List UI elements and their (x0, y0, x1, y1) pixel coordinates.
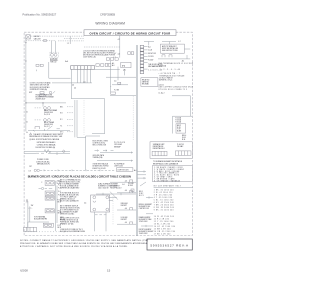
fuse on wire N (44, 40, 47, 42)
pin label row 4 (144, 56, 154, 58)
dots row bottom left (25, 231, 74, 233)
svg-text:RELOJ HORLOGE: RELOJ HORLOGE (93, 145, 107, 147)
wire element top link (96, 193, 136, 195)
wire dotted drop right of element (112, 196, 114, 225)
infinite switch SW1 (41, 181, 60, 186)
wire bake feed (26, 103, 66, 107)
svg-text:ATTENTION: L'APPAREIL DOIT ETR: ATTENTION: L'APPAREIL DOIT ETRE RELIE A … (20, 245, 128, 248)
svg-text:OVEN CIRCUIT / CIRCUITO DE HOR: OVEN CIRCUIT / CIRCUITO DE HORNO CIRCUIT… (90, 31, 171, 35)
receptacle row 3 (117, 208, 136, 210)
relay comp pair mid (118, 52, 134, 56)
pin label row 3 (144, 53, 156, 55)
svg-text:BURNER CIRCUIT / CIRCUITO DE P: BURNER CIRCUIT / CIRCUITO DE PLACAS DE C… (28, 175, 131, 179)
wire diagonal jog (110, 192, 118, 200)
svg-text:4-6: 4-6 (122, 184, 124, 186)
svg-text:12 Y .35 1000 240: 12 Y .35 1000 240 (154, 221, 174, 223)
svg-text:NOTES: CONNECT RANGE TO A PROP: NOTES: CONNECT RANGE TO A PROPERLY GROUN… (20, 239, 148, 242)
svg-text:7 BR .26 2600 240: 7 BR .26 2600 240 (154, 205, 174, 207)
svg-text:BK 1: BK 1 (60, 106, 63, 108)
note hidden bake element (36, 94, 55, 101)
wire paragraph column P4 (60, 217, 80, 225)
wire T junction L1 top (144, 42, 154, 46)
wire right bus (158, 55, 190, 59)
svg-text:DE INSTRUCCIONES (A): DE INSTRUCCIONES (A) (36, 146, 56, 149)
wire bus right of switches (56, 181, 58, 231)
receptacle pin box B (175, 151, 191, 156)
wire stub rows left of table (137, 170, 146, 197)
caption block right 1 (139, 196, 153, 210)
svg-text:TOR LUZ: TOR LUZ (50, 61, 56, 63)
wire pre-header row (29, 169, 115, 172)
svg-text:LIGHT SW 120V: LIGHT SW 120V (118, 170, 129, 172)
relay comps K1 K2 (105, 62, 114, 67)
wire element right links (109, 198, 117, 201)
svg-text:+ ( ) +: + ( ) + (28, 207, 32, 209)
svg-text:4-7: 4-7 (118, 39, 120, 41)
wire rail mid pair (75, 100, 77, 137)
node dot rail 2 (25, 60, 26, 61)
svg-text:6 GY .42 1500 240: 6 GY .42 1500 240 (154, 202, 174, 204)
svg-text:SEE INSTRUCTIONS: SEE INSTRUCTIONS (162, 50, 178, 52)
fuse comps row F1 F2 (96, 64, 104, 67)
infinite switch SW4 (45, 209, 54, 213)
svg-text:WIRING DIAGRAM: WIRING DIAGRAM (95, 22, 125, 26)
right list rows lower (182, 135, 186, 141)
svg-text:3 R .26 2500 240: 3 R .26 2500 240 (154, 195, 173, 197)
surface element E1 (91, 195, 110, 212)
svg-text:120V 60HZ ( A ): 120V 60HZ ( A ) (83, 56, 96, 59)
svg-text:4-6: 4-6 (125, 222, 127, 224)
svg-text:R 3: R 3 (60, 119, 62, 121)
infinite switch SW5 (43, 223, 53, 227)
svg-text:Y GY: Y GY (177, 129, 180, 131)
wide dark rows bottom (60, 229, 85, 233)
receptacle row 4 labels (121, 217, 128, 221)
svg-text:4-6: 4-6 (84, 202, 86, 204)
note door lock motor block (30, 82, 52, 91)
node diamond (62, 150, 65, 153)
svg-text:BK TO INFINITE SWITCH: BK TO INFINITE SWITCH (60, 205, 78, 207)
wire junction row (28, 129, 70, 132)
wire clock feed 2 (97, 160, 133, 162)
note anti-tip box (161, 44, 185, 53)
receptacle row 4 (117, 222, 136, 224)
rail tap marks (27, 111, 28, 135)
svg-text:1500W 240V: 1500W 240V (139, 233, 148, 235)
svg-text:BK W: BK W (177, 125, 181, 127)
wire clock frame (86, 136, 100, 170)
svg-text:USE COPPER CONDUCTORS ONLY: USE COPPER CONDUCTORS ONLY (159, 87, 194, 89)
svg-text:ELEMENTO DEL: ELEMENTO DEL (139, 206, 151, 208)
note clock block B (114, 142, 126, 148)
surface light switch box (117, 168, 137, 172)
switch right labels (58, 199, 66, 229)
svg-text:ELECTRONIC OVEN: ELECTRONIC OVEN (93, 141, 109, 143)
svg-text:9 BK .31 1200 240: 9 BK .31 1200 240 (154, 210, 174, 212)
marks row between switches (39, 187, 53, 189)
svg-text:(P1): (P1) (122, 65, 126, 67)
receptacle row 3 labels (121, 203, 128, 207)
diagram outer border (24, 32, 192, 235)
svg-text:QUE EL SOPORTE ANTIVOLCADURA: QUE EL SOPORTE ANTIVOLCADURA (29, 138, 59, 141)
svg-text:LF ELEMENT: LF ELEMENT (110, 186, 119, 188)
svg-text:CFEF358EB: CFEF358EB (100, 13, 115, 17)
wire dashed mid pair (64, 38, 84, 40)
wire anti-tip stub (184, 48, 190, 50)
svg-text:120V 60HZ: 120V 60HZ (114, 144, 122, 146)
svg-text:13 BL 2.4R 240: 13 BL 2.4R 240 (154, 224, 171, 226)
svg-text:+: + (110, 86, 111, 88)
wire to SW5 (28, 222, 49, 227)
wire top right link (162, 42, 176, 45)
svg-text:Y 4: Y 4 (60, 125, 62, 127)
wire staircase (77, 136, 86, 138)
receptacle text L (153, 143, 166, 150)
wire stems to door switch (52, 41, 56, 54)
wire drops from strip (78, 69, 91, 83)
svg-text:R 240V: R 240V (148, 59, 153, 61)
svg-text:EVENT DU FOUR: EVENT DU FOUR (93, 168, 107, 170)
wire arrows row (95, 150, 114, 152)
svg-text:GY 5: GY 5 (60, 131, 63, 133)
note lockout motor text (83, 49, 116, 58)
wire paragraph column P3 (60, 205, 80, 215)
pin label row 1 (144, 46, 151, 49)
svg-text:W 2: W 2 (60, 112, 63, 114)
wire gauge table header (154, 185, 193, 188)
connector P1 strip (140, 45, 144, 73)
svg-text:5995536527 REV:A: 5995536527 REV:A (150, 243, 189, 247)
svg-text:LIGHT 120V: LIGHT 120V (114, 166, 124, 168)
wire drops EOC area (111, 61, 125, 92)
svg-text:R OR: R OR (177, 127, 181, 129)
node warning A2 (26, 199, 28, 201)
svg-text:L1 4(-) 2: L1 4(-) 2 (159, 93, 165, 95)
infinite switch SW2 (45, 191, 54, 196)
thermal switch TOD1 (162, 55, 172, 57)
svg-text:L N: L N (29, 170, 31, 172)
wire power cord L1 (24, 150, 70, 152)
svg-text:6/2/08: 6/2/08 (20, 269, 28, 273)
node dot rail 1 (25, 42, 26, 43)
svg-text:10 W .42 1500 240: 10 W .42 1500 240 (154, 216, 174, 218)
relay board box (141, 78, 158, 87)
wire N dashed (26, 40, 55, 42)
wire paragraph column P2 (60, 191, 79, 202)
thermal cutout comps upper (106, 58, 118, 60)
svg-text:W 120V: W 120V (148, 56, 153, 58)
svg-text:4-1: 4-1 (118, 53, 120, 55)
pin label row 2 (144, 49, 152, 52)
svg-text:15 BR 1.9R 240: 15 BR 1.9R 240 (154, 229, 171, 231)
svg-text:14 GY .42 1500 240: 14 GY .42 1500 240 (154, 226, 176, 228)
wire clock feed 1 (100, 152, 133, 154)
svg-text:5A 120V: 5A 120V (34, 37, 42, 40)
svg-text:W-14: W-14 (182, 137, 186, 139)
pin dark label rows (144, 63, 163, 68)
svg-text:P-10 P-11: P-10 P-11 (177, 144, 184, 146)
wire loop big right (92, 99, 105, 134)
svg-text:3000W 240V: 3000W 240V (44, 112, 54, 114)
note clock block A (93, 141, 109, 147)
svg-text:4-6 mm: 4-6 mm (159, 84, 165, 86)
wire link y84.8 (112, 84, 128, 86)
wire gauge table rows A (154, 190, 174, 212)
wire header drop (119, 36, 121, 58)
svg-text:R L2 3: R L2 3 (139, 195, 144, 197)
power cord label (36, 159, 50, 166)
svg-text:P-6, P-7: P-6, P-7 (44, 126, 50, 128)
svg-text:R TO RF ELEMENT ROJO: R TO RF ELEMENT ROJO (60, 210, 79, 212)
wire right mid separator (173, 116, 193, 133)
svg-text:P-4, P-8: P-4, P-8 (44, 114, 50, 116)
thermal limiter marks (26, 203, 34, 209)
svg-text:GY TO OVEN DOOR LOCK: GY TO OVEN DOOR LOCK (60, 217, 80, 219)
mini table right mid (176, 124, 186, 133)
svg-text:4-6: 4-6 (74, 88, 76, 90)
switch pin column labels (58, 181, 60, 197)
receptacle pin box A (152, 151, 167, 156)
small box lower mid (111, 92, 116, 94)
wire link y95.7 (110, 95, 136, 97)
broil element connector (35, 119, 55, 129)
caution note block (29, 132, 63, 149)
wire left drops (28, 202, 30, 232)
svg-text:REINSTALLED IF RANGE IS MOVED.: REINSTALLED IF RANGE IS MOVED. VER (29, 135, 63, 138)
svg-text:FRONT ELEMENT: FRONT ELEMENT (139, 229, 152, 231)
svg-text:15: 15 (107, 269, 111, 273)
caption block right 2 (139, 214, 153, 223)
motor comp row (29, 91, 55, 96)
svg-text:PRECAUCION: EL APARATO DEBE SE: PRECAUCION: EL APARATO DEBE SER CONECTAD… (20, 242, 148, 245)
svg-text:BL BR: BL BR (177, 131, 181, 133)
svg-text:4 Y .35 1000 240: 4 Y .35 1000 240 (154, 197, 173, 199)
thermal fuse comp (118, 82, 121, 84)
svg-text:1 BK .31 1250 120: 1 BK .31 1250 120 (154, 190, 174, 192)
svg-text:11 R 2.1R 240: 11 R 2.1R 240 (154, 219, 169, 221)
svg-text:P-5 TO CLOCK: P-5 TO CLOCK (114, 142, 126, 144)
pin dotted label row (144, 69, 162, 71)
strain relief symbol (44, 150, 51, 153)
svg-text:MIDDLE ELEMENT: MIDDLE ELEMENT (139, 204, 152, 206)
svg-text:MENTACION (P): MENTACION (P) (37, 162, 50, 165)
svg-text:RECEPT: RECEPT (121, 219, 127, 221)
svg-text:5 BL .31 1250 240: 5 BL .31 1250 240 (154, 200, 174, 202)
terminal block TB3 (24, 227, 37, 231)
color code legend box (153, 165, 193, 182)
svg-text:L1 BK N W L2 R GND GY P-4: L1 BK N W L2 R GND GY P-4 Y (60, 229, 84, 231)
svg-text:CONTROL (EOC): CONTROL (EOC) (93, 143, 106, 145)
svg-text:2600W 240V: 2600W 240V (36, 98, 47, 100)
svg-text:RECEPT: RECEPT (121, 205, 127, 207)
svg-text:+ 4-7 BLOCK TIE . . T: + 4-7 BLOCK TIE . . T (159, 73, 181, 75)
svg-text:4-6: 4-6 (125, 190, 127, 192)
node dot bake feed (42, 102, 43, 103)
oven section header box (84, 30, 176, 36)
receptacle row 2 (117, 190, 136, 193)
mid tap rows (60, 106, 73, 133)
svg-text:R 240V: R 240V (128, 185, 133, 187)
svg-text:4-6: 4-6 (114, 81, 116, 83)
wire dotted drop mid (83, 100, 85, 136)
wire element leads (94, 212, 106, 231)
wire section divider 2 (136, 45, 138, 236)
svg-text:R-14: R-14 (182, 139, 185, 141)
svg-text:17 BK 2.2R 240: 17 BK 2.2R 240 (154, 234, 171, 236)
wire lower link (52, 82, 92, 84)
receptacle row 2 labels (110, 186, 122, 190)
receptacle text R (177, 144, 184, 148)
receptacle row 1 (110, 180, 136, 183)
note surface element (98, 182, 118, 189)
wire bus y77 (106, 76, 136, 78)
svg-text:1 . . . 2 . . . 3 . . . 4 . .: 1 . . . 2 . . . 3 . . . 4 . . . 5 . . 4-… (160, 69, 180, 71)
svg-text:4-6: 4-6 (83, 81, 85, 83)
wire paragraph column P1 (60, 178, 82, 189)
oven lamp DL1 (26, 35, 42, 41)
svg-text:Publication No. 5995536527: Publication No. 5995536527 (23, 13, 57, 17)
svg-text:1000 / 2500 W: 1000 / 2500 W (98, 188, 109, 190)
svg-text:A-6: A-6 (65, 60, 68, 63)
EOC control board U1 (121, 62, 131, 71)
svg-text:2 W .42 1500 120: 2 W .42 1500 120 (154, 192, 173, 194)
caption rows below receptacle (153, 160, 182, 165)
note ground path (93, 154, 105, 159)
svg-text:BK L1: BK L1 (139, 191, 143, 193)
wire dashed N extension (58, 40, 84, 42)
wire dash-dot to drop (84, 46, 120, 48)
wire door loop left (49, 62, 71, 78)
wire section divider 1 (135, 45, 137, 236)
svg-text:4-6: 4-6 (125, 208, 127, 210)
svg-text:MOT: MOT (29, 92, 32, 94)
svg-text:287: 287 (29, 166, 32, 168)
svg-text:1 2: 1 2 (67, 43, 69, 45)
right wire list rows (159, 62, 194, 95)
svg-text:3400W 240V: 3400W 240V (44, 124, 54, 126)
svg-text:8 OR .35 3400 240: 8 OR .35 3400 240 (154, 207, 174, 209)
svg-text:3. R RED / ROJO / ROUGE: 3. R RED / ROJO / ROUGE (154, 171, 179, 173)
svg-text:4-7: 4-7 (114, 53, 116, 55)
svg-text:1250W 240V: 1250W 240V (139, 221, 148, 223)
note right mid rows (176, 117, 181, 124)
svg-text:4-7: 4-7 (178, 41, 180, 43)
wire gauge table rows B (154, 216, 176, 236)
svg-text:RR ELEM: RR ELEM (121, 203, 128, 205)
note clock block E (114, 163, 124, 168)
svg-text:BK/W 120V: BK/W 120V (148, 53, 156, 55)
svg-text:16 OR .35 2500 240: 16 OR .35 2500 240 (154, 231, 176, 233)
infinite switch SW3 (45, 196, 54, 200)
bake element connector (35, 107, 58, 117)
svg-text:UTILICE SOLO COBRE 75 C: UTILICE SOLO COBRE 75 C (159, 89, 188, 91)
revision box (147, 239, 192, 250)
svg-text:4-6: 4-6 (72, 85, 74, 87)
svg-text:P-2 BK: P-2 BK (114, 89, 119, 91)
wire loop big left (71, 69, 104, 98)
wire rail L1 (25, 36, 27, 131)
terminal strip TB1 (71, 66, 95, 70)
svg-text:BLOQUE NEUTRO: BLOQUE NEUTRO (34, 219, 48, 221)
wire power cord N (24, 152, 70, 155)
wire bus under comps (95, 68, 120, 70)
receptacle outer box (150, 142, 192, 159)
svg-text:BK-14: BK-14 (182, 135, 186, 137)
lower comp row left (35, 126, 60, 130)
dashes below element (95, 214, 106, 216)
wire L1 dashed (30, 35, 84, 37)
svg-text:W N 2: W N 2 (139, 193, 143, 195)
wire right lower link (172, 96, 191, 116)
right small rows element (128, 183, 134, 192)
svg-text:INTERRUPTORES (A): INTERRUPTORES (A) (30, 88, 48, 91)
wire dotted divider (132, 96, 134, 140)
node 4-6 pair right (72, 85, 76, 90)
pin label row 5 (144, 59, 154, 61)
caption block right 3 (139, 225, 154, 235)
note dark block left (34, 216, 48, 221)
svg-text:LR ELEM: LR ELEM (121, 217, 128, 219)
small comps on rails (36, 64, 43, 71)
svg-text:P-10 BK: P-10 BK (128, 183, 134, 185)
door switch S1 (50, 52, 59, 63)
note clock block D (93, 163, 110, 170)
wire drop at x70 (69, 36, 71, 44)
svg-text:CENTRO 120V: CENTRO 120V (139, 208, 149, 210)
